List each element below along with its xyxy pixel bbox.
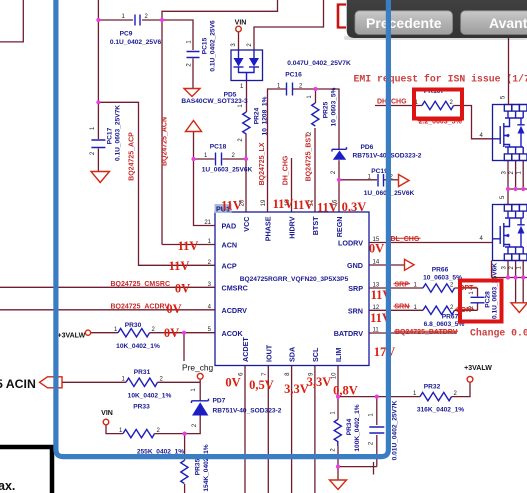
svg-text:PR66: PR66: [432, 267, 449, 274]
svg-text:0V: 0V: [369, 242, 384, 256]
svg-text:1: 1: [307, 95, 313, 99]
svg-text:ACDRV: ACDRV: [222, 306, 248, 315]
svg-text:PR33: PR33: [133, 404, 150, 411]
power arrow up: [186, 121, 202, 132]
svg-text:EMI request for ISN issue (1/7: EMI request for ISN issue (1/7: [354, 74, 527, 85]
svg-text:2: 2: [90, 151, 96, 155]
svg-text:1: 1: [517, 265, 523, 269]
resistor PR30: [114, 322, 160, 350]
svg-text:0V: 0V: [175, 282, 190, 296]
svg-text:+3VALW: +3VALW: [464, 365, 492, 372]
resistor PR25: [307, 87, 338, 135]
wire PR107 to high FET gate: [454, 106, 493, 139]
ground PC17: [91, 172, 110, 183]
svg-text:2: 2: [331, 448, 337, 452]
svg-text:1: 1: [517, 170, 523, 174]
ECO text EMI request: [354, 74, 527, 85]
resistor PR24: [238, 96, 269, 141]
svg-text:BAS40CW_SOT323-3: BAS40CW_SOT323-3: [181, 98, 248, 105]
wire ACIN to PR31: [62, 381, 126, 383]
net label DH_CHG horizontal: [377, 98, 407, 105]
svg-text:100K_0402_1%: 100K_0402_1%: [354, 404, 361, 451]
toolbar overlay bar: [344, 0, 527, 40]
svg-text:0,5V: 0,5V: [249, 378, 274, 392]
net label OPT struck: [458, 285, 477, 292]
wire LODRV DL_CHG to low FET gate: [369, 242, 493, 244]
svg-text:ACP: ACP: [222, 262, 237, 271]
svg-text:3,3V: 3,3V: [284, 382, 309, 396]
svg-text:Precedente: Precedente: [366, 15, 442, 31]
svg-text:PC28: PC28: [485, 291, 492, 308]
wire ILIM stub: [337, 366, 339, 397]
net label DL_CHG struck: [390, 236, 421, 243]
wire REGN vertical: [338, 180, 340, 212]
svg-text:PR35: PR35: [195, 458, 202, 475]
svg-text:154K_0402_1%: 154K_0402_1%: [203, 444, 210, 491]
svg-text:0.1U_0402_25V6: 0.1U_0402_25V6: [210, 20, 217, 72]
svg-text:ACN: ACN: [222, 241, 238, 250]
wire top-left corner net: [0, 0, 23, 42]
wire PR34 leads: [337, 397, 339, 467]
wire FET1 drain top: [508, 38, 510, 105]
ground BAS40: [184, 89, 200, 97]
wire PC15 to ground: [192, 59, 194, 89]
svg-text:1U_0603_25V6K: 1U_0603_25V6K: [202, 167, 253, 174]
svg-text:10_1208_1%: 10_1208_1%: [262, 96, 269, 135]
resistor PR33: [119, 404, 184, 456]
wire BST to PD6: [316, 89, 340, 149]
svg-text:BQ24725_ACP: BQ24725_ACP: [129, 132, 136, 181]
svg-text:1: 1: [369, 413, 375, 417]
svg-text:SRN: SRN: [348, 307, 363, 316]
wire PR34 to ground: [337, 467, 339, 480]
svg-text:PC17: PC17: [107, 127, 114, 144]
svg-text:2: 2: [247, 43, 253, 47]
wire ACN to IC pin 1: [162, 244, 215, 246]
black frame bottom-left: [0, 447, 52, 493]
svg-text:PR31: PR31: [134, 369, 151, 376]
svg-text:0V: 0V: [225, 376, 240, 390]
svg-text:Avanti: Avanti: [489, 15, 527, 31]
wire SRN row: [369, 309, 478, 311]
svg-text:VCC: VCC: [242, 217, 251, 232]
svg-text:PD7: PD7: [213, 398, 226, 405]
svg-text:ILIM: ILIM: [334, 348, 343, 362]
wire ACOK row: [91, 332, 215, 334]
net label BQ24725_ACP: [129, 132, 136, 181]
svg-text:3: 3: [501, 170, 507, 174]
svg-text:2: 2: [369, 441, 375, 445]
ground arrow right GND pin: [405, 259, 415, 270]
svg-text:11: 11: [373, 328, 380, 334]
svg-text:2: 2: [160, 377, 164, 383]
svg-text:2: 2: [145, 14, 149, 20]
svg-text:SRN: SRN: [395, 304, 410, 311]
svg-text:PHASE: PHASE: [264, 216, 273, 241]
svg-text:+3VALW: +3VALW: [58, 333, 86, 340]
resistor PR67: [414, 305, 465, 328]
svg-text:8: 8: [285, 372, 291, 376]
svg-text:BQ24725RGRR_VQFN20_3P5X3P5: BQ24725RGRR_VQFN20_3P5X3P5: [240, 276, 349, 283]
svg-text:DH_CHG: DH_CHG: [377, 98, 407, 105]
resistor PR107: [415, 88, 463, 126]
svg-text:RB751V-40_SOD323-2: RB751V-40_SOD323-2: [213, 408, 282, 415]
wire SRP row: [369, 287, 478, 289]
net label BQ24725_ACN: [162, 117, 169, 166]
ground right column: [511, 303, 527, 313]
capacitor PC19: [364, 168, 415, 197]
svg-text:PR30: PR30: [125, 322, 142, 329]
net label SRP struck: [394, 281, 411, 288]
wire PR35 to edge: [184, 484, 186, 493]
svg-text:BATDRV: BATDRV: [334, 329, 363, 338]
svg-text:VIN: VIN: [235, 20, 247, 27]
diode PD5 BAS40CW: [181, 43, 262, 105]
svg-text:4: 4: [480, 133, 484, 139]
svg-text:PC16: PC16: [285, 72, 302, 79]
svg-text:ACDET: ACDET: [241, 337, 250, 362]
wire to ground right: [516, 278, 524, 303]
transistor Q2 low-side MOSFET: [480, 205, 527, 270]
svg-text:PC18: PC18: [210, 144, 227, 151]
svg-text:21: 21: [204, 220, 211, 226]
svg-text:11V: 11V: [293, 198, 314, 212]
capacitor PC30: [369, 400, 399, 460]
wire BQ24725_ACN vertical: [161, 20, 163, 245]
svg-text:1: 1: [122, 14, 126, 20]
wire VIN to PD5 pin 3: [238, 32, 240, 50]
terminal VIN lower: [101, 410, 113, 425]
wire Pre_chg circle to PD7: [199, 380, 201, 402]
wire ACN branch to top: [162, 0, 278, 20]
wire junction to PR35: [184, 434, 186, 461]
svg-text:10: 10: [332, 372, 338, 379]
wire PC30 leads: [376, 397, 378, 467]
svg-text:0.01U_0402_25V7K: 0.01U_0402_25V7K: [392, 400, 399, 460]
svg-text:SRP: SRP: [348, 284, 363, 293]
svg-text:1: 1: [122, 377, 126, 383]
svg-text:11V: 11V: [273, 197, 294, 211]
svg-text:1: 1: [90, 126, 96, 130]
svg-text:Pre_chg: Pre_chg: [182, 363, 214, 373]
net label BQ24725_ACDRV: [111, 303, 170, 310]
wire BATDRV stub: [369, 332, 457, 334]
terminal +3VALW right: [464, 365, 492, 382]
svg-text:VIN: VIN: [101, 410, 113, 417]
wire PC19 leads: [339, 179, 398, 181]
svg-text:1: 1: [413, 391, 417, 397]
svg-text:1: 1: [240, 84, 244, 90]
wire FET2 sources down: [492, 261, 527, 278]
svg-text:PD6: PD6: [361, 144, 374, 151]
wire LX PC16 to PHASE pin: [268, 89, 287, 212]
wire VIN to PR33: [106, 425, 123, 434]
svg-text:0V: 0V: [166, 302, 181, 316]
svg-text:7: 7: [262, 372, 268, 376]
connector ACIN arrow: [0, 377, 62, 391]
wire PC28 leads: [477, 288, 479, 310]
svg-text:BQ24725_ACDRV: BQ24725_ACDRV: [111, 303, 170, 310]
svg-text:PR25: PR25: [323, 101, 330, 118]
svg-text:5: 5: [501, 95, 507, 99]
button Avanti: [461, 11, 527, 35]
svg-text:1: 1: [331, 411, 337, 415]
node Pre_chg: [182, 363, 214, 380]
svg-text:0.1U_0603_25V7K: 0.1U_0603_25V7K: [115, 105, 122, 161]
net label SRN struck: [394, 304, 411, 311]
svg-text:2: 2: [454, 391, 458, 397]
wire PAD pin 21: [194, 159, 216, 226]
svg-text:HIDRV: HIDRV: [288, 216, 297, 238]
svg-text:3,3V: 3,3V: [307, 375, 332, 389]
svg-text:1: 1: [187, 40, 193, 44]
wire HIDRV stub DH_CHG: [291, 158, 293, 212]
net label BQ24725_CMSRC: [111, 281, 171, 288]
wire bottom join: [338, 462, 377, 475]
svg-text:11V: 11V: [169, 259, 190, 273]
ECO red box PR107: [414, 90, 462, 119]
op-amp U1 charger IC PU1 BQ24725: [204, 199, 380, 379]
svg-text:BQ24725_CMSRC: BQ24725_CMSRC: [111, 281, 171, 288]
wire power arrow to PC18 node: [193, 132, 195, 160]
svg-text:10K_0402_1%: 10K_0402_1%: [116, 343, 160, 350]
resistor PR34: [331, 404, 362, 451]
terminal +3VALW left: [58, 330, 91, 339]
wire DH_CHG to PR107: [375, 105, 422, 107]
svg-text:REGN: REGN: [335, 217, 344, 238]
wire FET1 sources to phase node: [500, 161, 527, 205]
wire SDA down: [291, 366, 293, 493]
svg-text:ax.: ax.: [0, 479, 15, 493]
svg-text:DL_CHG: DL_CHG: [391, 236, 420, 243]
svg-text:SDA: SDA: [288, 347, 297, 362]
net label BQ24725_BST: [306, 133, 313, 182]
svg-text:19: 19: [261, 199, 267, 206]
svg-text:2: 2: [238, 138, 244, 142]
wire PD5 pin 2 staircase: [254, 0, 324, 50]
wire Pre_chg drop: [183, 333, 185, 361]
svg-text:2: 2: [331, 170, 337, 174]
svg-text:1: 1: [191, 388, 197, 392]
net label BQ24725_BATDRV struck: [394, 329, 458, 336]
wire to PC15: [162, 20, 193, 50]
ground PR34: [330, 480, 347, 490]
svg-text:0,3V: 0,3V: [342, 200, 367, 214]
svg-text:10K_0402_1%: 10K_0402_1%: [128, 393, 172, 400]
power arrow right REGN: [399, 175, 410, 187]
svg-text:5: 5: [500, 195, 506, 199]
svg-text:CMSRC: CMSRC: [222, 284, 248, 293]
wire PR31 to Pre_chg node: [158, 381, 201, 383]
svg-text:2: 2: [450, 100, 454, 106]
svg-text:0V: 0V: [164, 326, 179, 340]
svg-text:1: 1: [204, 153, 208, 159]
svg-text:PR34: PR34: [346, 418, 353, 435]
wire SCL down: [314, 366, 316, 493]
svg-text:316K_0402_1%: 316K_0402_1%: [417, 407, 464, 414]
capacitor PC18: [202, 144, 253, 174]
svg-text:PR32: PR32: [424, 384, 441, 391]
svg-text:SCL: SCL: [311, 347, 320, 362]
button Precedente: [355, 11, 453, 35]
svg-text:3: 3: [501, 265, 507, 269]
ECO red box PC28: [460, 281, 502, 322]
capacitor PC15: [187, 20, 217, 72]
svg-text:BTST: BTST: [311, 216, 320, 235]
net label BQ24725_LX: [259, 142, 266, 185]
svg-text:PAD: PAD: [222, 222, 237, 231]
wire ACDET down: [244, 366, 246, 493]
svg-text:14: 14: [373, 260, 380, 266]
wire PC17 leads: [97, 102, 99, 171]
svg-text:ACOK: ACOK: [222, 329, 244, 338]
wire CMSRC row: [0, 286, 215, 288]
terminal VIN top: [235, 20, 247, 32]
wire ACP staircase to IC pin 2: [98, 102, 215, 265]
svg-text:IOUT: IOUT: [264, 344, 273, 362]
diode PD6: [331, 144, 422, 174]
wire PR33 to junction: [155, 433, 185, 435]
resistor PR32: [413, 384, 464, 414]
resistor PR31: [122, 369, 172, 400]
wire PD6 to REGN node: [338, 160, 340, 180]
capacitor PC9: [110, 14, 162, 46]
wire BST node: [293, 89, 316, 212]
svg-text:12: 12: [373, 305, 380, 311]
svg-text:BQ24725_BATDRV: BQ24725_BATDRV: [395, 329, 458, 336]
svg-text:11V: 11V: [221, 199, 242, 213]
svg-text:SRP: SRP: [395, 281, 410, 288]
svg-text:2: 2: [509, 170, 515, 174]
svg-text:2: 2: [509, 265, 515, 269]
svg-text:17V: 17V: [374, 345, 396, 359]
svg-text:0,8V: 0,8V: [333, 384, 358, 398]
svg-text:10_0603_5%: 10_0603_5%: [331, 87, 338, 126]
svg-text:2: 2: [192, 423, 198, 427]
svg-text:4: 4: [480, 236, 484, 242]
svg-text:BQ24725_LX: BQ24725_LX: [259, 142, 266, 185]
ECO text Change: [470, 328, 527, 339]
svg-text:2: 2: [450, 283, 454, 289]
wire IOUT down: [267, 366, 269, 493]
svg-text:2: 2: [450, 305, 454, 311]
svg-text:0.1U_0402_25V6: 0.1U_0402_25V6: [110, 39, 162, 46]
svg-text:PR24: PR24: [254, 107, 261, 124]
resistor PR66: [414, 267, 463, 293]
svg-text:BQ24725_BST: BQ24725_BST: [306, 133, 313, 182]
capacitor PC17: [90, 105, 122, 161]
diode PD7: [191, 388, 282, 428]
svg-text:PC15: PC15: [202, 37, 209, 54]
svg-text:11V: 11V: [178, 239, 199, 253]
net label DH_CHG rotated: [283, 155, 290, 185]
svg-text:5 ACIN: 5 ACIN: [0, 377, 36, 391]
svg-text:0.1U_0603_25V6K: 0.1U_0603_25V6K: [492, 263, 499, 319]
svg-text:LODRV: LODRV: [338, 239, 363, 248]
wire VCC vertical PD5 PR24: [245, 81, 248, 213]
capacitor PC16: [277, 60, 351, 96]
svg-text:GND: GND: [347, 261, 363, 270]
svg-text:Change 0.0: Change 0.0: [470, 328, 527, 339]
resistor PR35: [181, 444, 210, 491]
wire PC18 leads: [194, 158, 247, 160]
svg-text:2: 2: [187, 63, 193, 67]
voltage annotations: [164, 197, 395, 398]
wire ACDRV row: [0, 309, 215, 311]
wire PC9 input vertical: [97, 0, 99, 102]
svg-text:DH_CHG: DH_CHG: [283, 155, 290, 185]
svg-text:PC19: PC19: [371, 168, 388, 175]
capacitor PC28: [469, 263, 499, 319]
svg-text:10_0603_5%: 10_0603_5%: [423, 275, 462, 282]
blue highlight box: [56, 0, 389, 457]
net label SON struck: [455, 307, 474, 314]
svg-text:PC9: PC9: [120, 31, 133, 38]
wire ILIM row to PR32: [338, 383, 470, 397]
svg-text:0.047U_0402_25V7K: 0.047U_0402_25V7K: [287, 60, 351, 67]
transistor Q1 high-side MOSFET: [480, 95, 527, 174]
svg-text:3: 3: [231, 43, 237, 47]
svg-text:BQ24725_ACN: BQ24725_ACN: [162, 117, 169, 166]
wire PD7 to junction: [185, 416, 201, 434]
wire GND pin 14 stub: [369, 264, 405, 266]
svg-text:PR67: PR67: [442, 314, 459, 321]
ECO red bracket behind toolbar: [338, 4, 346, 29]
svg-text:2: 2: [232, 153, 236, 159]
svg-text:11V: 11V: [317, 201, 338, 215]
wire PC9 leads: [98, 19, 162, 21]
